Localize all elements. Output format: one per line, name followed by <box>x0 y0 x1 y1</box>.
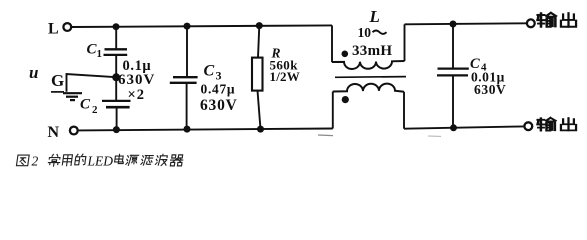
pin dot top winding <box>342 51 349 58</box>
svg-text:1/2W: 1/2W <box>270 69 300 84</box>
svg-text:L: L <box>369 7 380 26</box>
node junction C4 top <box>450 21 457 28</box>
terminal L (input line) <box>63 23 71 31</box>
label output top (shu chu) <box>538 13 556 27</box>
wire choke bottom right down <box>403 92 405 129</box>
wire ground branch <box>67 74 117 92</box>
svg-text:L: L <box>48 21 59 38</box>
tilde of 10~ <box>373 31 387 34</box>
svg-text:LED: LED <box>87 153 114 168</box>
ground symbol <box>51 91 64 93</box>
wire top rail right <box>405 23 527 24</box>
resistor R <box>258 26 259 58</box>
wire choke top right up <box>404 24 406 61</box>
scan noise dash <box>318 134 333 137</box>
terminal output bottom <box>524 122 532 130</box>
wire bottom rail left <box>78 129 333 131</box>
wire top rail left <box>72 25 333 27</box>
svg-text:G: G <box>51 71 64 90</box>
inductor L1 top winding (common-mode choke) <box>332 61 405 69</box>
capacitor C2 <box>115 77 117 101</box>
wire bottom rail right <box>404 126 525 128</box>
node junction R top <box>256 22 263 29</box>
svg-text:2: 2 <box>92 104 98 116</box>
capacitor C4 <box>452 24 454 68</box>
terminal output top <box>527 19 535 27</box>
svg-text:3: 3 <box>216 69 222 83</box>
capacitor C1 <box>115 27 117 49</box>
label output bottom (shu chu) <box>538 118 556 131</box>
svg-text:630V: 630V <box>118 72 155 88</box>
node junction C2 bottom <box>113 126 120 133</box>
svg-text:10: 10 <box>358 25 372 40</box>
svg-text:33mH: 33mH <box>352 43 392 59</box>
svg-text:C: C <box>204 62 215 79</box>
node junction C1 top <box>113 23 120 30</box>
wire top rail corner down to choke <box>331 25 333 62</box>
inductor L1 bottom winding <box>333 84 404 92</box>
svg-text:2: 2 <box>32 153 39 168</box>
node junction C3 top <box>184 23 191 30</box>
svg-text:1: 1 <box>97 48 103 60</box>
svg-text:0.47μ: 0.47μ <box>201 82 236 97</box>
inductor core <box>335 76 406 79</box>
node mid junction C1-C2 <box>112 73 120 81</box>
capacitor C3 <box>186 26 188 77</box>
terminal N (input neutral) <box>70 127 78 135</box>
svg-text:630V: 630V <box>474 82 506 97</box>
wire bottom rail corner up to choke <box>332 92 334 129</box>
node junction R bottom <box>257 126 264 133</box>
svg-text:C: C <box>80 97 91 113</box>
svg-text:630V: 630V <box>200 97 238 114</box>
node junction C4 bottom <box>450 124 457 131</box>
pin dot bottom winding <box>342 96 349 103</box>
svg-text:N: N <box>48 124 60 141</box>
svg-text:u: u <box>29 63 38 82</box>
node junction C3 bottom <box>184 126 191 133</box>
caption figure 2 <box>16 155 29 166</box>
